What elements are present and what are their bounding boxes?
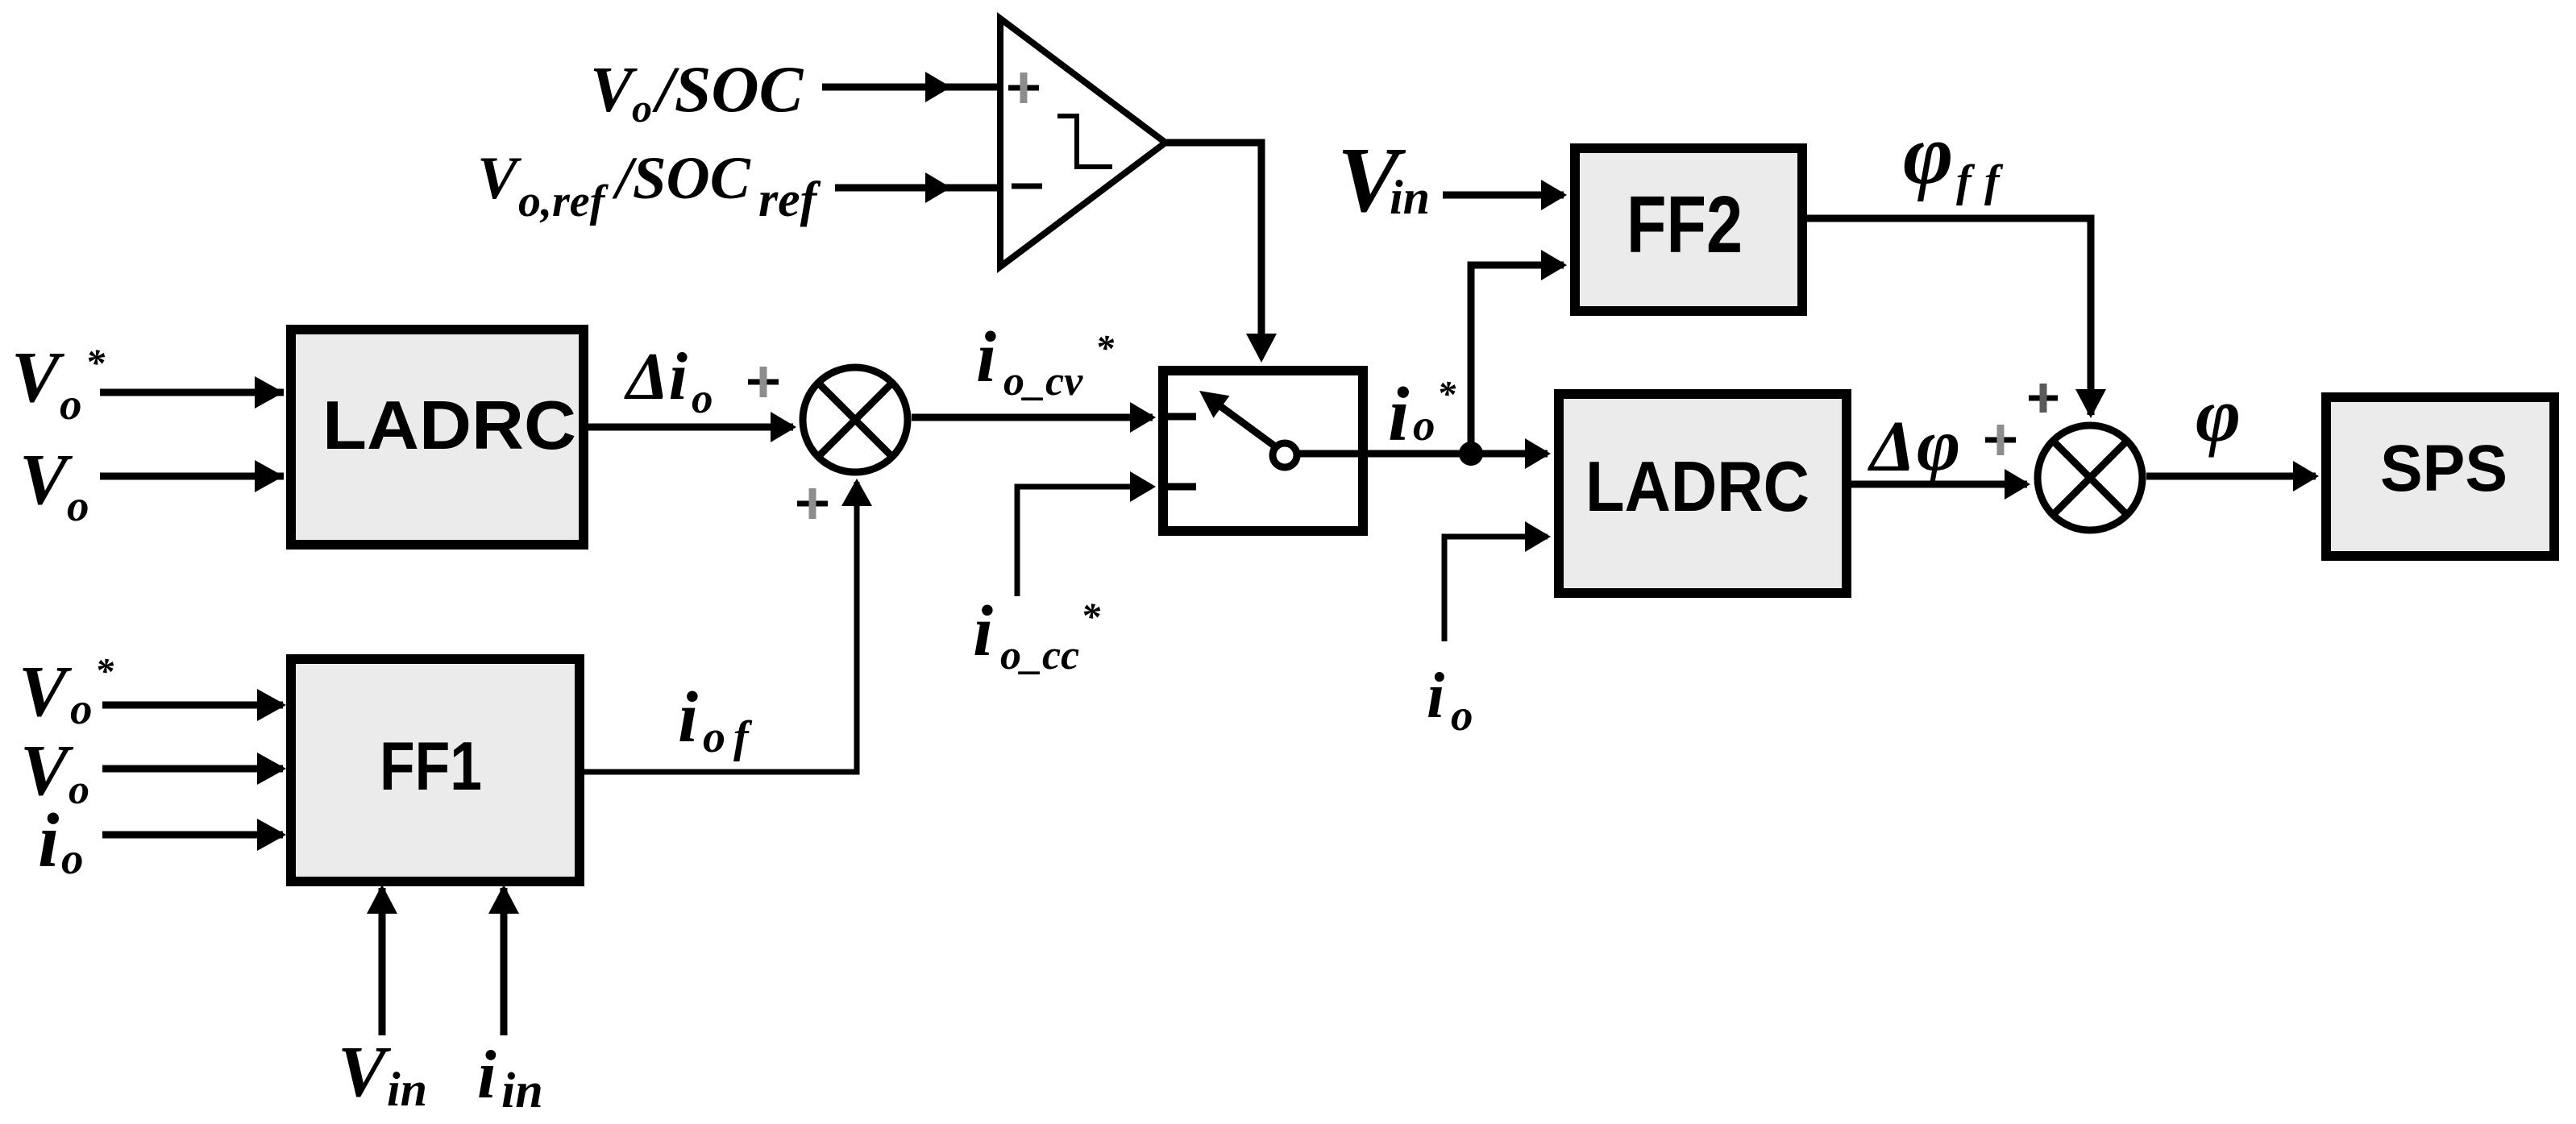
svg-text:V: V — [11, 338, 65, 417]
svg-text:V: V — [19, 440, 73, 520]
svg-text:o_cc: o_cc — [1000, 633, 1079, 678]
svg-text:*: * — [95, 650, 114, 691]
svg-text:o: o — [70, 684, 93, 733]
svg-text:Δi: Δi — [624, 339, 688, 414]
svg-text:o: o — [67, 481, 89, 530]
svg-text:in: in — [501, 1064, 543, 1118]
svg-text:o: o — [703, 712, 725, 762]
svg-text:V: V — [477, 145, 522, 212]
svg-text:*: * — [85, 342, 106, 384]
svg-text:φ: φ — [2196, 371, 2241, 458]
svg-text:o_cv: o_cv — [1003, 359, 1083, 404]
svg-text:o,ref: o,ref — [518, 176, 609, 226]
svg-text:φ: φ — [1903, 107, 1954, 202]
svg-text:o: o — [632, 85, 652, 131]
svg-text:i: i — [973, 591, 993, 671]
svg-text:i: i — [1388, 371, 1409, 457]
svg-text:V: V — [338, 1032, 392, 1112]
svg-text:V: V — [19, 652, 73, 732]
svg-text:Δ: Δ — [1868, 407, 1915, 487]
svg-text:LADRC: LADRC — [322, 388, 576, 464]
svg-text:*: * — [1081, 595, 1101, 638]
svg-text:V: V — [590, 55, 638, 126]
svg-text:LADRC: LADRC — [1585, 446, 1809, 526]
svg-text:*: * — [1095, 327, 1115, 368]
svg-text:o: o — [60, 380, 82, 429]
svg-text:i: i — [477, 1037, 497, 1113]
svg-text:o: o — [69, 767, 89, 813]
svg-text:in: in — [1390, 171, 1430, 224]
svg-text:o: o — [1413, 400, 1435, 450]
svg-text:i: i — [976, 317, 996, 397]
svg-text:o: o — [61, 834, 84, 883]
svg-text:o: o — [1451, 691, 1473, 740]
svg-text:i: i — [678, 678, 698, 757]
svg-text:*: * — [1437, 373, 1456, 414]
svg-text:in: in — [387, 1063, 427, 1116]
svg-text:ref: ref — [758, 172, 821, 227]
svg-text:/SOC: /SOC — [612, 145, 751, 212]
svg-text:φ: φ — [1917, 404, 1960, 487]
svg-text:FF1: FF1 — [380, 728, 482, 805]
svg-text:FF2: FF2 — [1627, 180, 1743, 270]
svg-text:/SOC: /SOC — [652, 52, 804, 126]
svg-text:i: i — [38, 798, 59, 883]
svg-text:o: o — [692, 375, 713, 422]
svg-text:i: i — [1427, 661, 1444, 732]
svg-text:SPS: SPS — [2380, 432, 2507, 505]
